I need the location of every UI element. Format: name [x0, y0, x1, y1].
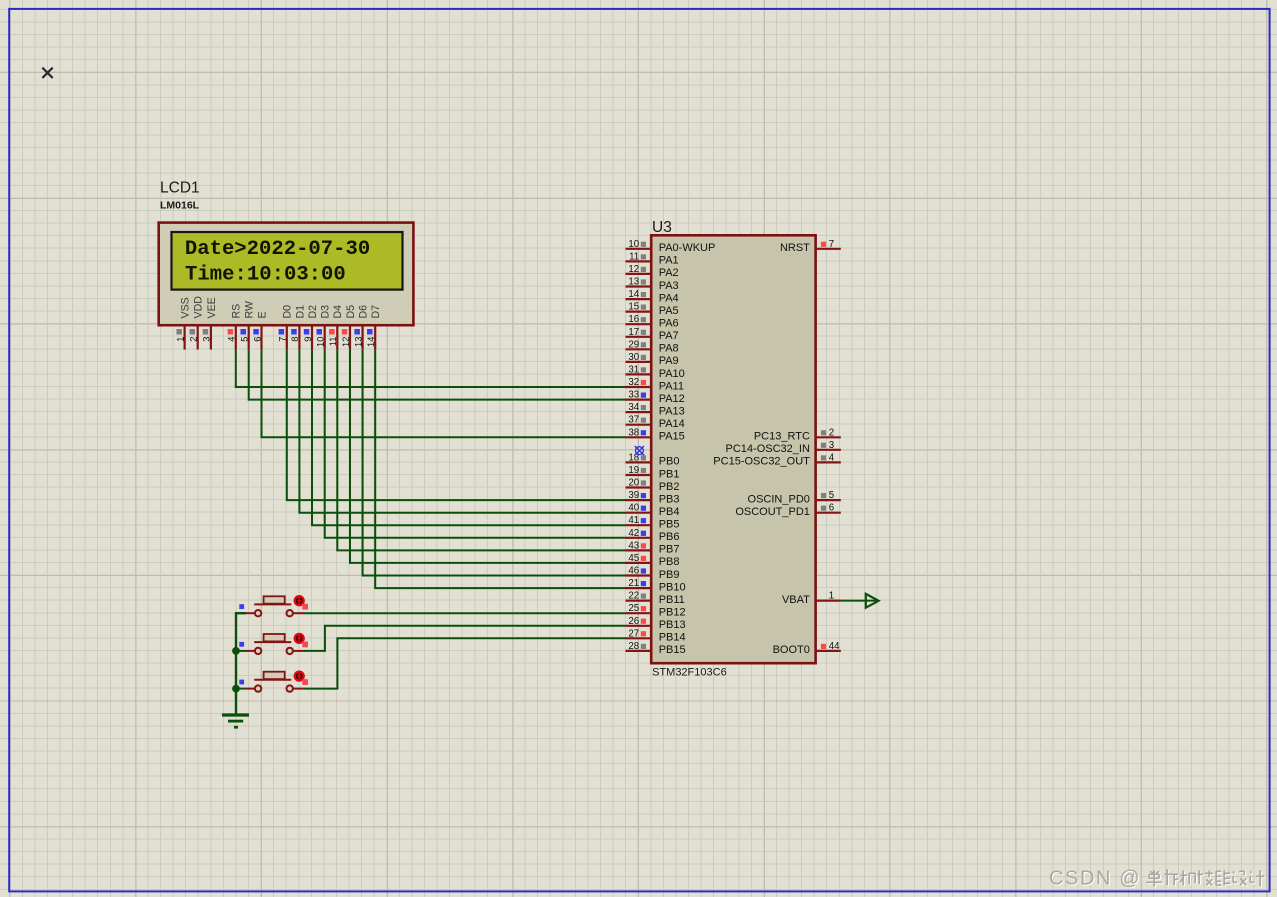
push button KEY3 actuator icon	[295, 672, 308, 685]
U3 pin 22 (PB11)	[626, 591, 685, 606]
svg-text:D2: D2	[307, 305, 319, 319]
svg-text:1: 1	[829, 591, 834, 602]
U3 pin 44 (BOOT0)	[773, 641, 841, 656]
svg-text:5: 5	[829, 490, 834, 501]
U3 pin 30 (PA9)	[626, 352, 679, 367]
svg-text:PB12: PB12	[659, 607, 686, 619]
svg-text:PA7: PA7	[659, 330, 679, 342]
svg-text:VEE: VEE	[206, 297, 218, 318]
svg-text:PB5: PB5	[659, 519, 680, 531]
svg-text:4: 4	[829, 452, 835, 463]
svg-text:26: 26	[628, 616, 639, 627]
svg-text:14: 14	[628, 289, 639, 300]
svg-text:16: 16	[628, 314, 639, 325]
LCD1 pin 9 (D2)	[303, 305, 319, 350]
svg-text:BOOT0: BOOT0	[773, 644, 810, 656]
svg-text:22: 22	[628, 591, 639, 602]
svg-text:PA12: PA12	[659, 393, 685, 405]
push button KEY1 left pin indicator	[239, 604, 244, 609]
wire KEY3 left stub	[236, 688, 246, 690]
svg-text:Date>2022-07-30: Date>2022-07-30	[185, 238, 370, 261]
svg-text:NRST: NRST	[780, 242, 810, 254]
push button KEY2 actuator icon	[295, 634, 308, 647]
svg-text:PB8: PB8	[659, 556, 680, 568]
LCD1 pin 12 (D5)	[341, 305, 357, 350]
svg-text:PA11: PA11	[659, 380, 684, 392]
wire D0 net: LCD1.7 to U3.PB3	[287, 350, 626, 501]
svg-text:27: 27	[628, 628, 639, 639]
svg-text:E: E	[256, 311, 268, 318]
wire KEY2 to U3.PB13	[304, 626, 626, 651]
wire D3 net: LCD1.10 to U3.PB6	[325, 350, 626, 538]
svg-text:34: 34	[628, 402, 639, 413]
wire KEY2 left stub	[236, 650, 246, 652]
U3 pin 16 (PA6)	[626, 314, 679, 329]
svg-text:LCD1: LCD1	[160, 180, 200, 197]
U3 pin 6 (OSCOUT_PD1)	[735, 503, 840, 518]
svg-text:13: 13	[628, 277, 639, 288]
svg-text:PA4: PA4	[659, 292, 679, 304]
U3 pin 3 (PC14-OSC32_IN)	[726, 440, 841, 455]
svg-text:45: 45	[628, 553, 639, 564]
svg-text:PB13: PB13	[659, 619, 686, 631]
svg-text:38: 38	[628, 427, 639, 438]
svg-text:U3: U3	[652, 219, 672, 236]
svg-text:PB2: PB2	[659, 481, 680, 493]
wire KEY1 to U3.PB12	[304, 612, 626, 614]
LCD1 pin 8 (D1)	[290, 305, 306, 350]
svg-text:PB9: PB9	[659, 569, 680, 581]
U3 pin 18 (PB0)	[626, 452, 680, 467]
svg-text:21: 21	[628, 578, 639, 589]
U3 pin 15 (PA5)	[626, 302, 679, 317]
svg-text:PA1: PA1	[659, 255, 679, 267]
svg-text:15: 15	[628, 302, 639, 313]
svg-text:6: 6	[829, 503, 834, 514]
svg-text:PB15: PB15	[659, 644, 686, 656]
svg-text:12: 12	[628, 264, 639, 275]
push button KEY3 body	[246, 672, 304, 692]
svg-text:PA14: PA14	[659, 418, 685, 430]
LCD1 pin 11 (D4)	[328, 305, 344, 350]
svg-text:46: 46	[628, 566, 639, 577]
wire KEY3 to U3.PB14	[304, 638, 626, 688]
U3 pin 11 (PA1)	[626, 251, 679, 266]
U3 pin 21 (PB10)	[626, 578, 686, 593]
wire D5 net: LCD1.12 to U3.PB8	[350, 350, 626, 563]
svg-text:PA8: PA8	[659, 343, 679, 355]
svg-text:PA13: PA13	[659, 405, 685, 417]
svg-text:LM016L: LM016L	[160, 199, 200, 211]
push button KEY2 body	[246, 634, 304, 654]
svg-text:PB1: PB1	[659, 468, 680, 480]
svg-text:VBAT: VBAT	[782, 594, 810, 606]
U3 pin 14 (PA4)	[626, 289, 679, 304]
LCD1 pin 6 (E)	[252, 311, 268, 349]
svg-text:17: 17	[628, 327, 639, 338]
svg-text:D6: D6	[358, 305, 370, 319]
U3 pin 31 (PA10)	[626, 364, 685, 379]
svg-text:7: 7	[278, 337, 288, 342]
svg-text:PA5: PA5	[659, 305, 679, 317]
LCD1 pin 10 (D3)	[316, 305, 332, 350]
svg-text:10: 10	[628, 239, 639, 250]
svg-text:STM32F103C6: STM32F103C6	[652, 667, 727, 679]
LCD1 pin 7 (D0)	[278, 305, 294, 350]
wire U3.VBAT to power terminal	[841, 600, 878, 602]
U3 pin 19 (PB1)	[626, 465, 680, 480]
svg-text:PA15: PA15	[659, 431, 685, 443]
LCD LCD1 body	[159, 223, 414, 326]
svg-text:30: 30	[628, 352, 639, 363]
U3 pin 33 (PA12)	[626, 390, 685, 405]
LCD1 pin 14 (D7)	[366, 305, 382, 350]
svg-text:2: 2	[189, 337, 199, 342]
U3 pin 28 (PB15)	[626, 641, 686, 656]
svg-text:37: 37	[628, 415, 639, 426]
svg-text:5: 5	[240, 337, 250, 342]
svg-text:1: 1	[175, 337, 185, 342]
svg-text:14: 14	[366, 337, 376, 347]
U3 origin marker crosshair	[630, 441, 649, 460]
U3 pin 32 (PA11)	[626, 377, 684, 392]
watermark CSDN	[1049, 867, 1265, 890]
svg-text:10: 10	[316, 337, 326, 347]
svg-text:28: 28	[628, 641, 639, 652]
svg-text:PB3: PB3	[659, 493, 680, 505]
wire RW net: LCD1.5 to U3.PA12	[249, 350, 626, 400]
svg-text:PA6: PA6	[659, 318, 679, 330]
svg-text:D0: D0	[282, 305, 294, 319]
junction at KEY2	[232, 647, 240, 655]
svg-text:D3: D3	[320, 305, 332, 319]
wire D7 net: LCD1.14 to U3.PB10	[375, 350, 625, 588]
svg-text:PB0: PB0	[659, 456, 680, 468]
LCD1 pin 13 (D6)	[353, 305, 369, 350]
U3 pin 7 (NRST)	[780, 239, 841, 254]
svg-text:39: 39	[628, 490, 639, 501]
svg-text:PA2: PA2	[659, 267, 679, 279]
svg-text:19: 19	[628, 465, 639, 476]
svg-text:PC13_RTC: PC13_RTC	[754, 431, 810, 443]
svg-text:PA10: PA10	[659, 368, 685, 380]
svg-text:D5: D5	[345, 305, 357, 319]
U3 pin 12 (PA2)	[626, 264, 679, 279]
wire D4 net: LCD1.11 to U3.PB7	[337, 350, 625, 551]
U3 pin 39 (PB3)	[626, 490, 680, 505]
power terminal at VBAT	[866, 594, 879, 608]
svg-text:VSS: VSS	[180, 297, 192, 318]
wire RS net: LCD1.4 to U3.PA11	[236, 350, 626, 387]
U3 pin 17 (PA7)	[626, 327, 679, 342]
LCD1 pin 5 (RW)	[240, 301, 256, 350]
U3 pin 29 (PA8)	[626, 339, 679, 354]
wire E net: LCD1.6 to U3.PA15	[262, 350, 626, 438]
svg-text:PB4: PB4	[659, 506, 680, 518]
push button KEY1 actuator icon	[295, 596, 308, 609]
svg-text:11: 11	[629, 251, 639, 262]
U3 pin 45 (PB8)	[626, 553, 680, 568]
svg-text:29: 29	[628, 339, 639, 350]
svg-text:OSCOUT_PD1: OSCOUT_PD1	[735, 506, 810, 518]
U3 pin 42 (PB6)	[626, 528, 680, 543]
svg-text:PB7: PB7	[659, 544, 680, 556]
U3 pin 34 (PA13)	[626, 402, 685, 417]
LCD1 pin 2 (VDD)	[189, 296, 205, 350]
wire ground bus	[236, 613, 246, 714]
svg-text:CSDN @: CSDN @	[1049, 867, 1141, 889]
svg-text:OSCIN_PD0: OSCIN_PD0	[748, 493, 810, 505]
svg-text:PB14: PB14	[659, 632, 686, 644]
svg-text:PC14-OSC32_IN: PC14-OSC32_IN	[726, 443, 810, 455]
svg-text:20: 20	[628, 478, 639, 489]
U3 pin 46 (PB9)	[626, 566, 680, 581]
wire D6 net: LCD1.13 to U3.PB9	[363, 350, 626, 576]
push button KEY3 left pin indicator	[239, 680, 244, 685]
push button KEY1 body	[246, 596, 304, 616]
svg-text:D7: D7	[370, 305, 382, 319]
U3 pin 43 (PB7)	[626, 540, 680, 555]
svg-text:3: 3	[202, 337, 212, 342]
svg-text:D4: D4	[332, 305, 344, 319]
U3 pin 1 (VBAT)	[782, 591, 841, 606]
U3 pin 40 (PB4)	[626, 503, 680, 518]
svg-text:PC15-OSC32_OUT: PC15-OSC32_OUT	[713, 456, 810, 468]
svg-text:2: 2	[829, 427, 834, 438]
U3 pin 10 (PA0-WKUP)	[626, 239, 716, 254]
svg-text:11: 11	[328, 337, 338, 347]
svg-text:RW: RW	[244, 301, 256, 318]
svg-text:43: 43	[628, 540, 639, 551]
LCD1 screen	[172, 232, 403, 290]
svg-text:42: 42	[628, 528, 639, 539]
origin marker X	[42, 68, 52, 78]
U3 pin 26 (PB13)	[626, 616, 686, 631]
svg-text:12: 12	[341, 337, 351, 347]
svg-text:41: 41	[628, 515, 639, 526]
svg-text:32: 32	[628, 377, 639, 388]
junction at KEY3	[232, 685, 240, 693]
svg-text:RS: RS	[231, 304, 243, 319]
U3 pin 13 (PA3)	[626, 277, 679, 292]
U3 pin 27 (PB14)	[626, 628, 686, 643]
svg-text:PB10: PB10	[659, 581, 686, 593]
svg-text:PA3: PA3	[659, 280, 679, 292]
LCD1 pin 3 (VEE)	[202, 297, 218, 349]
U3 pin 37 (PA14)	[626, 415, 685, 430]
svg-text:4: 4	[227, 337, 237, 342]
svg-text:40: 40	[628, 503, 639, 514]
svg-text:VDD: VDD	[193, 296, 205, 319]
svg-text:6: 6	[252, 337, 262, 342]
svg-text:PB6: PB6	[659, 531, 680, 543]
svg-text:PA0-WKUP: PA0-WKUP	[659, 242, 716, 254]
ground	[222, 715, 249, 727]
svg-text:PA9: PA9	[659, 355, 679, 367]
LCD1 pin 4 (RS)	[227, 304, 243, 350]
svg-text:D1: D1	[294, 305, 306, 319]
svg-text:33: 33	[628, 390, 639, 401]
svg-text:25: 25	[628, 603, 639, 614]
U3 pin 25 (PB12)	[626, 603, 686, 618]
U3 pin 41 (PB5)	[626, 515, 680, 530]
U3 pin 4 (PC15-OSC32_OUT)	[713, 452, 840, 467]
svg-text:8: 8	[290, 337, 300, 342]
svg-text:13: 13	[353, 337, 363, 347]
U3 body	[651, 235, 815, 663]
svg-text:PB11: PB11	[659, 594, 685, 606]
U3 pin 5 (OSCIN_PD0)	[748, 490, 841, 505]
svg-text:3: 3	[829, 440, 834, 451]
svg-text:Time:10:03:00: Time:10:03:00	[185, 264, 346, 287]
LCD1 pin 1 (VSS)	[175, 297, 191, 349]
U3 pin 38 (PA15)	[626, 427, 685, 442]
svg-text:31: 31	[628, 364, 639, 375]
U3 pin 2 (PC13_RTC)	[754, 427, 841, 442]
wire D2 net: LCD1.9 to U3.PB5	[312, 350, 626, 526]
svg-text:9: 9	[303, 337, 313, 342]
svg-text:7: 7	[829, 239, 834, 250]
svg-text:44: 44	[829, 641, 840, 652]
U3 pin 20 (PB2)	[626, 478, 680, 493]
wire D1 net: LCD1.8 to U3.PB4	[299, 350, 625, 513]
push button KEY2 left pin indicator	[239, 642, 244, 647]
